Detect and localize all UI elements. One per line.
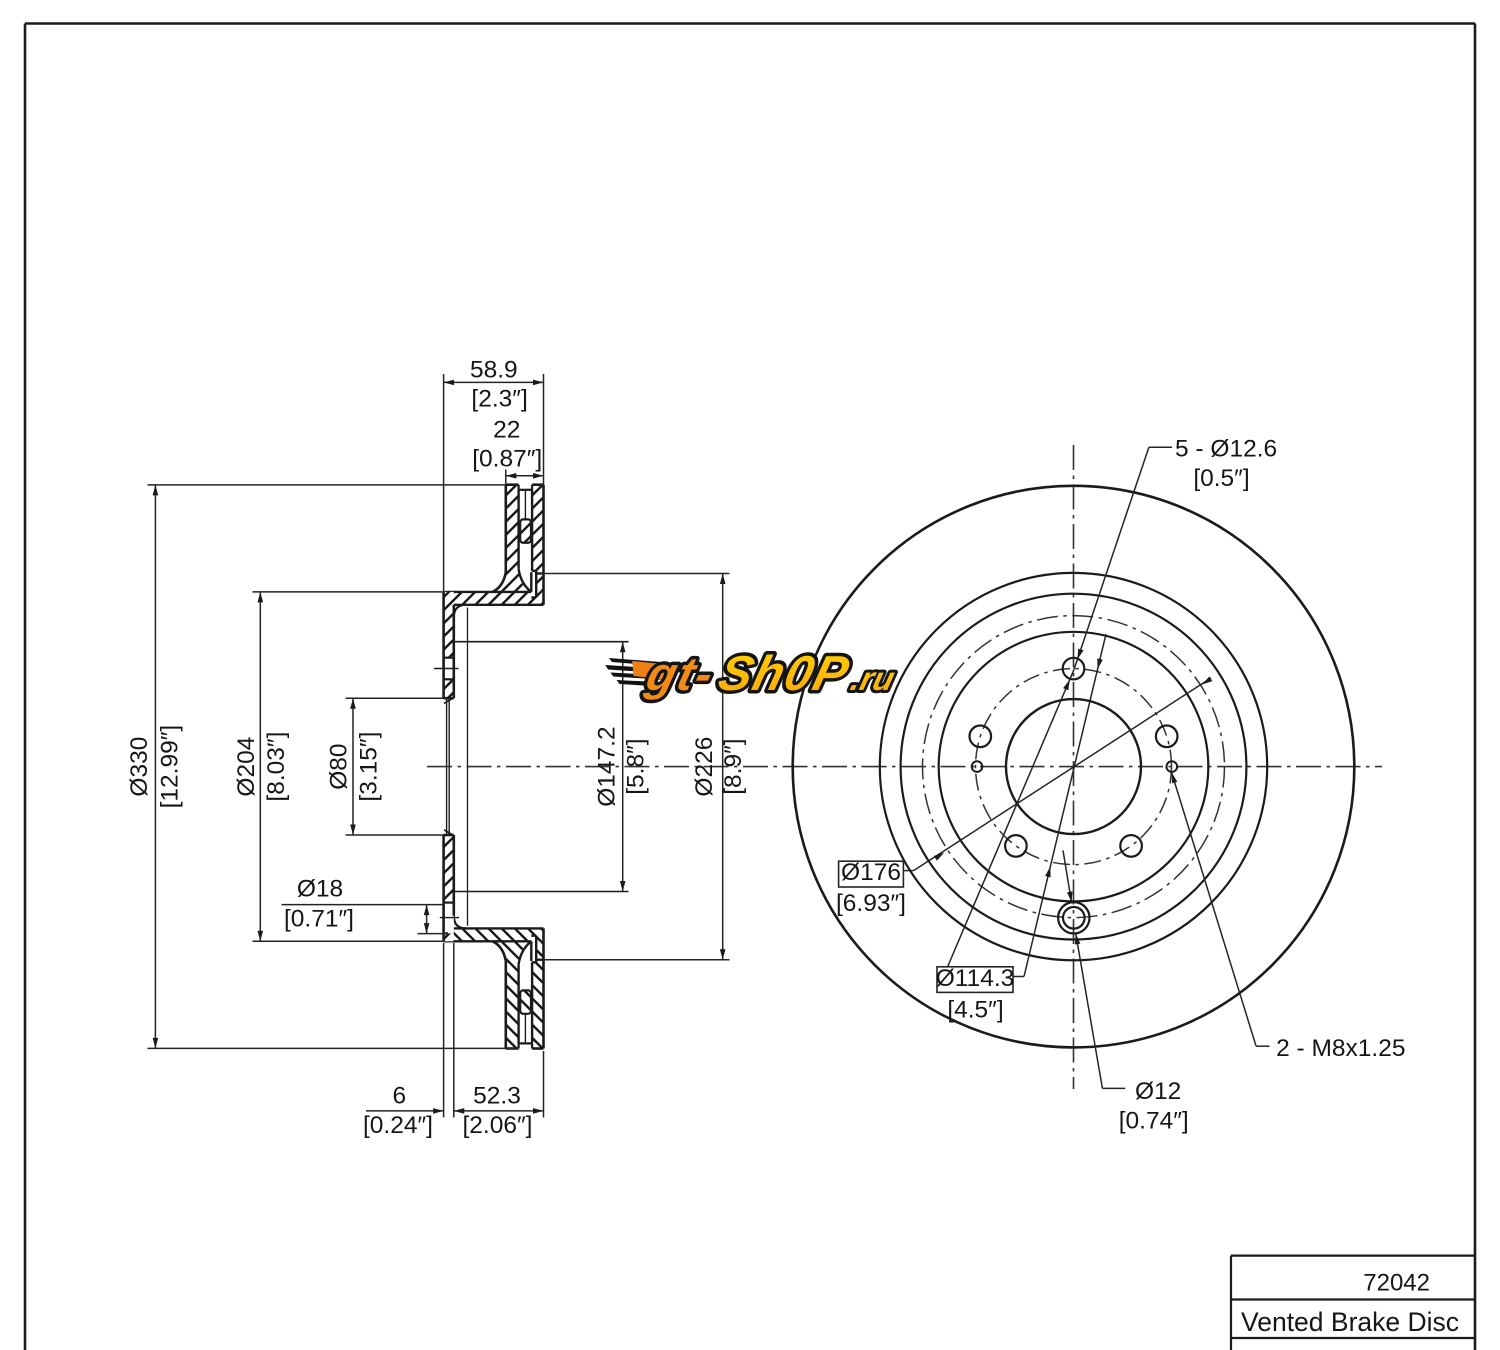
inner ring visible edge lower xyxy=(455,891,629,893)
stud hole Ø12.6 #2 xyxy=(1156,726,1178,748)
svg-text:Ø330: Ø330 xyxy=(126,737,153,797)
stepped hole outer Ø18 xyxy=(1058,902,1089,933)
svg-text:Ø204: Ø204 xyxy=(233,737,260,797)
bolt circle Ø114.3 (dash-dot) xyxy=(976,669,1172,865)
hub bore silhouette lines xyxy=(446,699,448,834)
svg-text:Ø114.3: Ø114.3 xyxy=(936,965,1015,992)
mounting face wall upper (with stud hole Ø12.6) xyxy=(434,592,458,704)
label Ø114.3 [4.5"] bolt circle with leader xyxy=(936,634,1106,1023)
circle inner ring xyxy=(939,632,1209,902)
svg-text:[5.8″]: [5.8″] xyxy=(623,738,650,794)
border frame xyxy=(25,22,1475,25)
label Ø12 [0.74"] with pinch arrows xyxy=(1063,850,1189,1134)
svg-text:[0.87″]: [0.87″] xyxy=(472,446,542,473)
section view upper half (rotor plates, vent rib, hat flange) xyxy=(444,485,544,768)
svg-text:2 - M8x1.25: 2 - M8x1.25 xyxy=(1276,1035,1405,1062)
dimensions 6 [0.24"] and 52.3 [2.06"] xyxy=(363,943,543,1139)
stud hole Ø12.6 #3 xyxy=(1120,835,1142,857)
stepped hole inner Ø12 xyxy=(1063,907,1085,929)
svg-text:[12.99″]: [12.99″] xyxy=(157,725,184,809)
gt-shop.ru watermark logo xyxy=(596,646,902,701)
stud hole Ø12.6 #5 xyxy=(970,726,992,748)
svg-text:Sh0P: Sh0P xyxy=(713,646,855,701)
svg-text:Ø176: Ø176 xyxy=(841,859,901,886)
svg-text:Ø18: Ø18 xyxy=(297,876,343,903)
svg-text:Vented Brake Disc: Vented Brake Disc xyxy=(1241,1307,1459,1337)
svg-text:Ø12: Ø12 xyxy=(1135,1078,1181,1105)
dimension Ø204 [8.03"] hat diameter xyxy=(233,592,444,941)
svg-text:[0.71″]: [0.71″] xyxy=(284,906,354,933)
svg-text:Ø147.2: Ø147.2 xyxy=(594,726,621,806)
svg-text:[8.9″]: [8.9″] xyxy=(720,738,747,794)
label 5 - Ø12.6 [0.5"] with leader through top stud hole xyxy=(948,435,1278,967)
svg-text:Ø226: Ø226 xyxy=(691,737,718,797)
svg-text:[0.5″]: [0.5″] xyxy=(1193,465,1249,492)
centre bore Ø80 xyxy=(1006,699,1141,834)
svg-text:[2.3″]: [2.3″] xyxy=(471,386,527,413)
dimension Ø330 [12.99"] outer diameter xyxy=(126,485,518,1049)
section view lower half (mirrored) xyxy=(444,766,544,1049)
dimension 58.9 [2.3"] overall width xyxy=(444,357,544,592)
label 2 - M8x1.25 with leader xyxy=(1169,772,1406,1062)
dimension Ø147.2 [5.8"] inner ring xyxy=(594,642,650,892)
small hole left (M8) xyxy=(972,761,983,772)
svg-text:22: 22 xyxy=(493,417,520,444)
mounting face wall lower (with Ø18 hole) xyxy=(440,830,459,942)
dimension Ø226 [8.9"] friction inner diameter xyxy=(537,574,747,960)
svg-text:5 - Ø12.6: 5 - Ø12.6 xyxy=(1175,435,1277,462)
dimension Ø18 [0.71"] hole xyxy=(282,876,449,934)
stud hole Ø12.6 #1 xyxy=(1063,658,1085,680)
svg-text:[8.03″]: [8.03″] xyxy=(263,732,290,802)
dimension Ø80 [3.15"] centre bore xyxy=(326,698,444,835)
svg-text:[0.74″]: [0.74″] xyxy=(1119,1108,1189,1135)
label Ø176 [6.93"] with diameter leader xyxy=(836,676,1212,917)
circle Ø226 friction inner xyxy=(880,573,1267,960)
outer circle Ø330 xyxy=(793,486,1355,1048)
svg-text:gt-: gt- xyxy=(640,649,720,701)
circle Ø176 bolt pattern (dash-dot) xyxy=(923,616,1225,918)
svg-text:Ø80: Ø80 xyxy=(326,743,353,789)
small hole right (M8) xyxy=(1167,761,1178,772)
section & front view horizontal centerline xyxy=(427,766,1382,768)
svg-text:6: 6 xyxy=(392,1083,406,1110)
svg-text:[0.24″]: [0.24″] xyxy=(363,1112,433,1139)
svg-text:72042: 72042 xyxy=(1363,1269,1430,1296)
front view vertical centerline xyxy=(1073,445,1075,1089)
svg-text:[2.06″]: [2.06″] xyxy=(463,1112,533,1139)
svg-text:52.3: 52.3 xyxy=(473,1083,521,1110)
svg-text:58.9: 58.9 xyxy=(470,357,518,384)
circle Ø204 hat xyxy=(901,594,1247,940)
svg-text:[3.15″]: [3.15″] xyxy=(356,732,383,802)
title block xyxy=(1231,1254,1475,1256)
inner ring visible edge upper xyxy=(455,641,629,643)
svg-text:[6.93″]: [6.93″] xyxy=(836,890,906,917)
dimension 22 [0.87"] rotor thickness xyxy=(472,417,543,485)
svg-text:[4.5″]: [4.5″] xyxy=(947,996,1003,1023)
stud hole Ø12.6 #4 xyxy=(1005,835,1027,857)
